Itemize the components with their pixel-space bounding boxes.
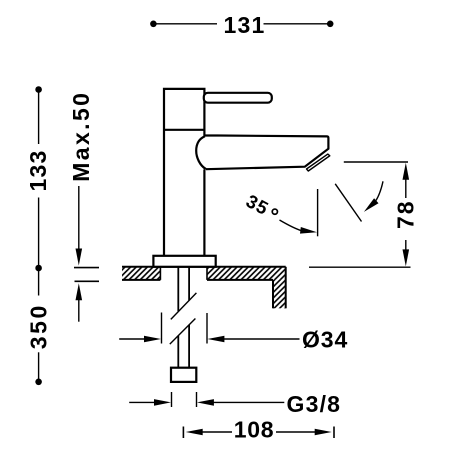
aerator strip at spout tip bbox=[307, 154, 330, 171]
dimension 108 left tick bbox=[182, 427, 184, 439]
countertop outer right edge bbox=[285, 267, 287, 309]
pipe break mark lower slash bbox=[170, 319, 196, 345]
dimension 131 left end dot bbox=[150, 21, 157, 28]
dimension G3/8 left leader line bbox=[129, 401, 155, 403]
supply shank right wall upper segment bbox=[188, 267, 190, 301]
supply shank right wall lower segment bbox=[188, 325, 190, 368]
35 degree label degree-circle bbox=[272, 209, 277, 214]
dimension O34 right leader line bbox=[224, 338, 300, 340]
dimension G3/8 left extension tick bbox=[171, 392, 173, 407]
dimension O34 right arrowhead bbox=[207, 336, 224, 343]
vertical reference line below spout bbox=[317, 189, 319, 236]
dimension 78 top extension line bbox=[344, 161, 408, 163]
countertop top surface line bbox=[122, 266, 286, 268]
svg-text:Ø34: Ø34 bbox=[302, 327, 348, 353]
35 degree leader arrowhead bbox=[300, 227, 317, 234]
svg-text:G3/8: G3/8 bbox=[287, 391, 342, 417]
dimension O34 left leader line bbox=[119, 338, 145, 340]
G3/8 connection nut bbox=[171, 368, 196, 382]
dimension 108 line left segment bbox=[202, 431, 232, 433]
tap hole left edge bbox=[159, 267, 161, 280]
dimension 131 line left part bbox=[153, 23, 217, 25]
dimension O34 right extension tick bbox=[206, 313, 208, 344]
svg-text:131: 131 bbox=[224, 12, 266, 38]
dimension 133 top dot bbox=[35, 86, 42, 93]
deck top reference tick bbox=[74, 267, 99, 269]
dimension 108 right arrowhead bbox=[315, 429, 332, 436]
svg-text:78: 78 bbox=[393, 200, 419, 229]
35 degree leader curve bbox=[280, 220, 303, 231]
dimension 108 left arrowhead bbox=[186, 429, 203, 436]
svg-text:133: 133 bbox=[25, 150, 51, 192]
supply shank left wall upper segment bbox=[177, 267, 179, 311]
dimension 108 line right segment bbox=[276, 431, 318, 433]
Max.50 down arrowhead bbox=[76, 249, 83, 266]
dimension 78 down arrowhead bbox=[403, 249, 410, 266]
dimension 78 bottom extension line bbox=[309, 266, 411, 268]
countertop inner right edge bbox=[272, 280, 274, 308]
countertop hatch right down-leg bbox=[273, 280, 286, 308]
dimension 108 right tick bbox=[333, 427, 335, 439]
tap body and spout outline bbox=[164, 89, 328, 256]
Max.50 up arrowhead bbox=[76, 283, 83, 300]
dimension 78 up arrowhead bbox=[403, 163, 410, 180]
svg-text:Max.50: Max.50 bbox=[68, 91, 94, 182]
deck bottom reference tick bbox=[75, 280, 100, 282]
Max.50 leader line down bbox=[78, 186, 80, 249]
dimension O34 left extension tick bbox=[161, 313, 163, 344]
dimension G3/8 right extension tick bbox=[196, 392, 198, 407]
dimension G3/8 right arrowhead bbox=[197, 399, 214, 406]
svg-text:108: 108 bbox=[234, 417, 274, 443]
dimension G3/8 left arrowhead bbox=[154, 399, 171, 406]
dimension 133 line upper segment bbox=[38, 90, 40, 145]
countertop underside line left of hole bbox=[122, 279, 160, 281]
dimension 131 right end dot bbox=[327, 21, 334, 28]
dimension 133/350 line middle segment bbox=[38, 198, 40, 296]
dimension 78 line lower segment bbox=[405, 240, 407, 251]
supply shank left wall lower segment bbox=[177, 336, 179, 368]
countertop hatch right band bbox=[207, 267, 286, 280]
dimension 78 line upper segment bbox=[405, 179, 407, 198]
dimension 131 line right part bbox=[264, 23, 331, 25]
angle arc arrowhead bbox=[364, 198, 379, 212]
pipe break mark upper slash bbox=[171, 293, 197, 320]
base flange bbox=[153, 256, 215, 267]
dimension G3/8 right leader line bbox=[214, 401, 285, 403]
tap hole right edge bbox=[206, 267, 208, 280]
dimension 350 bottom dot bbox=[35, 379, 42, 386]
dimension 350 line lower segment bbox=[38, 352, 40, 382]
35 degree flow ray bbox=[335, 184, 361, 222]
svg-text:350: 350 bbox=[25, 303, 51, 349]
angle arc bbox=[376, 181, 383, 200]
single lever handle bbox=[204, 93, 272, 103]
dimension O34 left arrowhead bbox=[144, 336, 161, 343]
countertop hatch left band bbox=[122, 267, 160, 280]
Max.50 lower leader line bbox=[78, 300, 80, 322]
dimension 133/350 shared dot bbox=[35, 265, 42, 272]
countertop underside line right of hole bbox=[207, 279, 273, 281]
